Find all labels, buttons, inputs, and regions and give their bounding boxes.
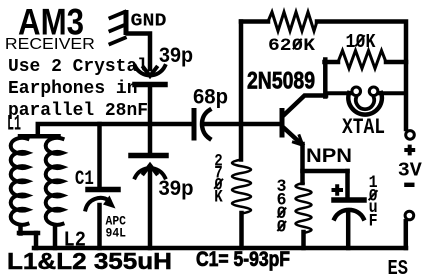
svg-text:RECEIVER: RECEIVER: [5, 36, 95, 53]
capacitor C3 39p bottom: curved plate: [135, 168, 165, 177]
wire emitter branch to 10uF: [303, 169, 348, 174]
svg-text:K: K: [214, 187, 223, 207]
coil top bar: [20, 134, 59, 139]
capacitor 10uF bottom lead: [346, 214, 351, 248]
ground hatch 3: [110, 38, 124, 44]
svg-text:ES: ES: [388, 258, 409, 280]
svg-text:3V: 3V: [398, 159, 422, 181]
wire C2 to node A: [148, 87, 153, 153]
left rail base node to top rail and 270K: [239, 22, 244, 160]
wire 68p to base: [204, 122, 280, 127]
capacitor C1 arrowhead: [103, 196, 116, 209]
capacitor C2 39p top: curved plate: [135, 66, 165, 75]
svg-text:39p: 39p: [159, 177, 194, 200]
ground GND symbol bar: [124, 13, 129, 33]
transistor Q1 collector: [284, 96, 326, 116]
svg-text:L1: L1: [7, 112, 21, 137]
capacitor 68p left plate: [192, 111, 197, 139]
svg-text:XTAL: XTAL: [342, 115, 385, 140]
capacitor C2 39p top: fixed plate: [135, 82, 165, 88]
svg-text:F: F: [369, 211, 378, 231]
inductor L1 winding: [11, 138, 28, 225]
svg-text:10K: 10K: [346, 31, 377, 53]
capacitor 10uF top plate: [334, 197, 364, 203]
earphone XTAL diaphragm inner arc: [356, 97, 374, 110]
transistor Q1 2N5089 base bar: [280, 111, 285, 136]
wire node A to C1: [97, 124, 102, 186]
top rail left segment: [241, 19, 268, 24]
earphone XTAL right circle: [369, 87, 378, 96]
capacitor C3 39p bottom: arrow: [144, 165, 157, 174]
battery minus sign: [406, 183, 412, 187]
wire emitter down: [300, 144, 305, 183]
capacitor 10uF plus sign: [334, 186, 342, 194]
earphone XTAL left circle: [352, 87, 361, 96]
svg-text:620K: 620K: [268, 36, 316, 56]
coil bottom bar: [19, 231, 38, 236]
capacitor C2 39p top: arrow: [144, 68, 157, 77]
top rail right segment and right rail: [317, 22, 406, 130]
svg-text:68p: 68p: [193, 86, 228, 109]
svg-text:2N5089: 2N5089: [247, 68, 315, 95]
wire node A horizontal (coil top to 68p): [38, 124, 192, 136]
svg-text:parallel 28nF: parallel 28nF: [8, 101, 148, 121]
resistor 620K zigzag: [268, 12, 317, 31]
svg-text:GND: GND: [131, 11, 167, 32]
wire battery minus to bus: [404, 221, 409, 248]
transistor Q1 emitter arrow barbs: [294, 136, 303, 145]
slashed zero of 620K: [294, 40, 302, 49]
earphone XTAL right wire: [379, 91, 404, 95]
inductor L2 winding: [46, 138, 63, 225]
transistor Q1 emitter: [284, 128, 302, 145]
capacitor 10uF curved plate: [335, 210, 364, 219]
resistor 10K zigzag: [338, 51, 386, 69]
earphone XTAL left wire: [327, 91, 352, 95]
svg-text:NPN: NPN: [306, 146, 352, 167]
svg-text:Earphones in: Earphones in: [8, 79, 138, 99]
battery minus terminal circle: [405, 211, 414, 220]
battery plus sign: [406, 147, 413, 154]
wire 10K left lead: [325, 60, 339, 65]
capacitor C3 39p bottom: fixed plate: [131, 153, 166, 159]
capacitor C1 rotor arrow arc: [86, 198, 110, 210]
capacitor C1 plate: [88, 187, 118, 193]
wire coil bottom to bus: [18, 227, 23, 234]
wire 270K to bus: [239, 213, 244, 248]
ground bus: [34, 246, 406, 251]
battery plus terminal circle: [406, 131, 415, 140]
svg-text:94L: 94L: [106, 226, 127, 240]
bar collector to 10K and XTAL: [323, 60, 328, 97]
svg-text:Use 2 Crystal: Use 2 Crystal: [8, 57, 148, 77]
svg-text:L1&L2 355uH: L1&L2 355uH: [7, 248, 172, 274]
svg-text:C1= 5-93pF: C1= 5-93pF: [196, 247, 290, 271]
svg-text:39p: 39p: [159, 44, 193, 67]
ground hatch 2: [110, 25, 124, 31]
slashed zero of 10K: [356, 36, 364, 46]
wire L2 bottom to bus: [53, 226, 58, 249]
slashed zero of 270K: [215, 180, 223, 189]
wire GND to C2: [128, 34, 150, 70]
resistor 3600 zigzag: [296, 183, 312, 233]
wire C1 to bus: [97, 205, 102, 248]
capacitor 10uF top lead: [345, 171, 350, 198]
wire 10K right lead: [386, 60, 406, 65]
wire 3600 to bus: [301, 232, 306, 248]
wire C3 to ground bus: [148, 171, 153, 248]
wire coil bottom bar to bus: [34, 233, 39, 248]
capacitor 68p curved plate: [202, 110, 210, 139]
resistor 270K zigzag: [232, 160, 251, 214]
ground hatch 1: [110, 12, 124, 18]
earphone XTAL cup outer arc: [348, 93, 382, 115]
